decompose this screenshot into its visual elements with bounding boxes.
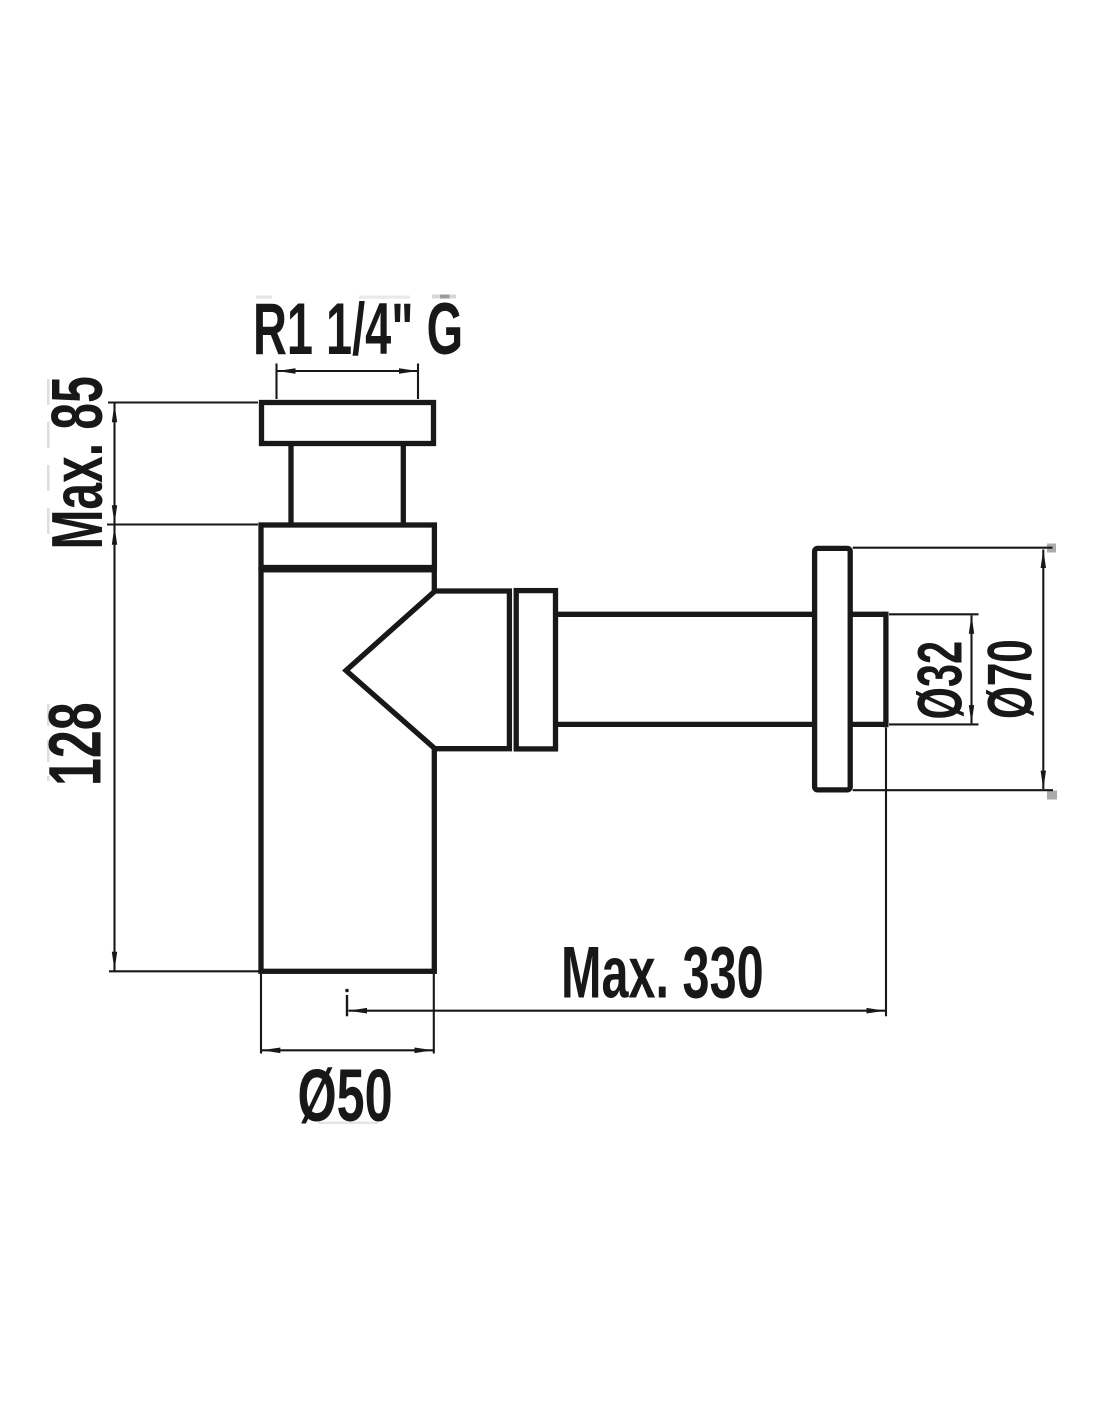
svg-text:128: 128	[35, 702, 117, 786]
svg-text:Ø70: Ø70	[975, 639, 1045, 719]
svg-text:R1 1/4" G: R1 1/4" G	[253, 289, 463, 371]
svg-text:Ø32: Ø32	[906, 641, 976, 720]
svg-text:Max. 85: Max. 85	[37, 376, 117, 549]
svg-text:Ø50: Ø50	[298, 1056, 393, 1138]
svg-text:Max. 330: Max. 330	[561, 933, 764, 1014]
